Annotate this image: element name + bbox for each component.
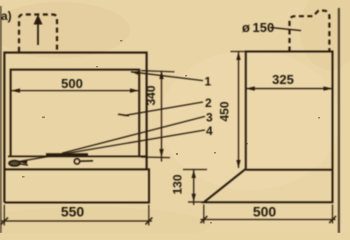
right view: duct (dashed): [290, 11, 330, 52]
dimension 450: [231, 51, 247, 53]
svg-text:550: 550: [61, 204, 85, 220]
left view: outer box: [4, 53, 146, 203]
leader 1: [131, 72, 203, 81]
leader 2: [124, 102, 203, 116]
leader 4: [18, 130, 205, 162]
dimension 550: [3, 205, 5, 226]
svg-text:2: 2: [205, 96, 212, 110]
dimension 325: [246, 88, 333, 90]
svg-text:4: 4: [206, 124, 213, 138]
dimension 500 (left view): [11, 90, 139, 92]
svg-text:ø 150: ø 150: [242, 20, 274, 35]
left view: flow arrow: [37, 22, 39, 45]
left view: inner bottom line: [8, 155, 147, 157]
paper shading blotches: [0, 2, 130, 58]
dimension 500 (right view): [203, 205, 205, 224]
scan edge left: [0, 6, 2, 233]
svg-text:130: 130: [171, 174, 185, 194]
right view: shelf line: [246, 169, 333, 171]
left view: duct (dashed): [19, 15, 57, 52]
latch knob: [74, 159, 79, 164]
latch bar: [46, 153, 88, 156]
right view: body: [204, 52, 333, 203]
left view: base: [4, 169, 149, 202]
left view: inner panel: [11, 70, 140, 157]
svg-text:500: 500: [253, 204, 277, 220]
scan edge right: [338, 8, 340, 233]
scan specks: [22, 40, 320, 223]
svg-text:1: 1: [205, 75, 212, 89]
svg-text:a): a): [1, 9, 12, 23]
svg-text:500: 500: [61, 76, 83, 91]
svg-text:450: 450: [217, 101, 231, 121]
svg-text:340: 340: [144, 85, 158, 105]
leader 3: [62, 116, 205, 153]
dimension 340 (left view): [141, 71, 175, 72]
dimension 130: [183, 169, 207, 171]
svg-text:3: 3: [206, 111, 213, 125]
svg-text:325: 325: [272, 72, 294, 87]
hinge oval: [9, 161, 20, 166]
